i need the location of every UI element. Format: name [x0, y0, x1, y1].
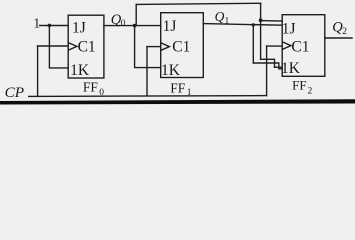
svg-text:C1: C1 [172, 39, 190, 56]
wire FF2 C1 horizontal [267, 45, 283, 47]
wire Q1 output to FF2 [203, 24, 282, 26]
wire FF2 C1 vertical to CP line [266, 46, 268, 96]
svg-text:2: 2 [308, 86, 313, 96]
junction dot node 1 at FF0 1J [48, 24, 52, 28]
page rule bottom bar [0, 99, 355, 104]
svg-text:FF: FF [170, 80, 186, 95]
svg-text:FF: FF [292, 78, 306, 93]
wire junction vertical to FF0 1K [49, 26, 68, 68]
wire Q1 node down [252, 25, 254, 63]
junction dot node Q1 [252, 23, 255, 26]
svg-text:1J: 1J [72, 20, 86, 37]
junction dot node Q0 at FF2 1J [259, 18, 263, 22]
svg-text:1: 1 [33, 16, 40, 31]
svg-text:CP: CP [5, 84, 24, 101]
svg-text:Q: Q [215, 9, 225, 24]
svg-text:1J: 1J [163, 18, 177, 35]
wire inner step to FF2 1K [261, 59, 275, 67]
clock wedge FF2 C1 [282, 42, 291, 50]
svg-text:C1: C1 [78, 38, 96, 55]
wire CP line [29, 95, 267, 98]
wire FF1 C1 horizontal [147, 46, 161, 48]
wire CP to FF0 C1 [38, 45, 69, 47]
wire FF0 C1 vertical to CP line [37, 46, 39, 96]
svg-text:2: 2 [342, 27, 347, 37]
wire Q0 node up to top line [135, 4, 137, 25]
wire Q0 output to FF1 1J [104, 25, 161, 27]
wire Q2 output [325, 37, 352, 39]
svg-text:1K: 1K [161, 62, 181, 79]
wire Q0 node down to FF1 1K [135, 26, 161, 68]
wire top line vertical down at FF2 [260, 3, 262, 59]
svg-text:1K: 1K [70, 62, 90, 79]
svg-text:0: 0 [121, 19, 126, 29]
svg-text:FF: FF [83, 80, 99, 95]
svg-text:1J: 1J [282, 21, 296, 38]
svg-text:1: 1 [225, 15, 230, 25]
wire FF1 C1 vertical to CP line [146, 47, 148, 96]
svg-text:0: 0 [99, 88, 104, 98]
clock wedge FF1 C1 [161, 43, 170, 51]
flip-flop FF2 box [282, 15, 325, 77]
junction dot node Q0 [133, 24, 137, 28]
svg-text:1: 1 [187, 88, 192, 98]
clock wedge FF0 C1 [68, 43, 77, 51]
wire outer step at FF2 [253, 63, 282, 69]
wire FF2 1J stub [261, 20, 283, 22]
svg-text:C1: C1 [291, 38, 309, 55]
flip-flop FF1 box [161, 13, 204, 78]
flip-flop FF0 box [68, 15, 104, 78]
wire top line Q0 to FF2 [136, 3, 260, 4]
wire FF2 1K stub [275, 66, 283, 68]
svg-text:1K: 1K [281, 60, 301, 77]
wire 1 to FF0 1J [40, 25, 68, 27]
